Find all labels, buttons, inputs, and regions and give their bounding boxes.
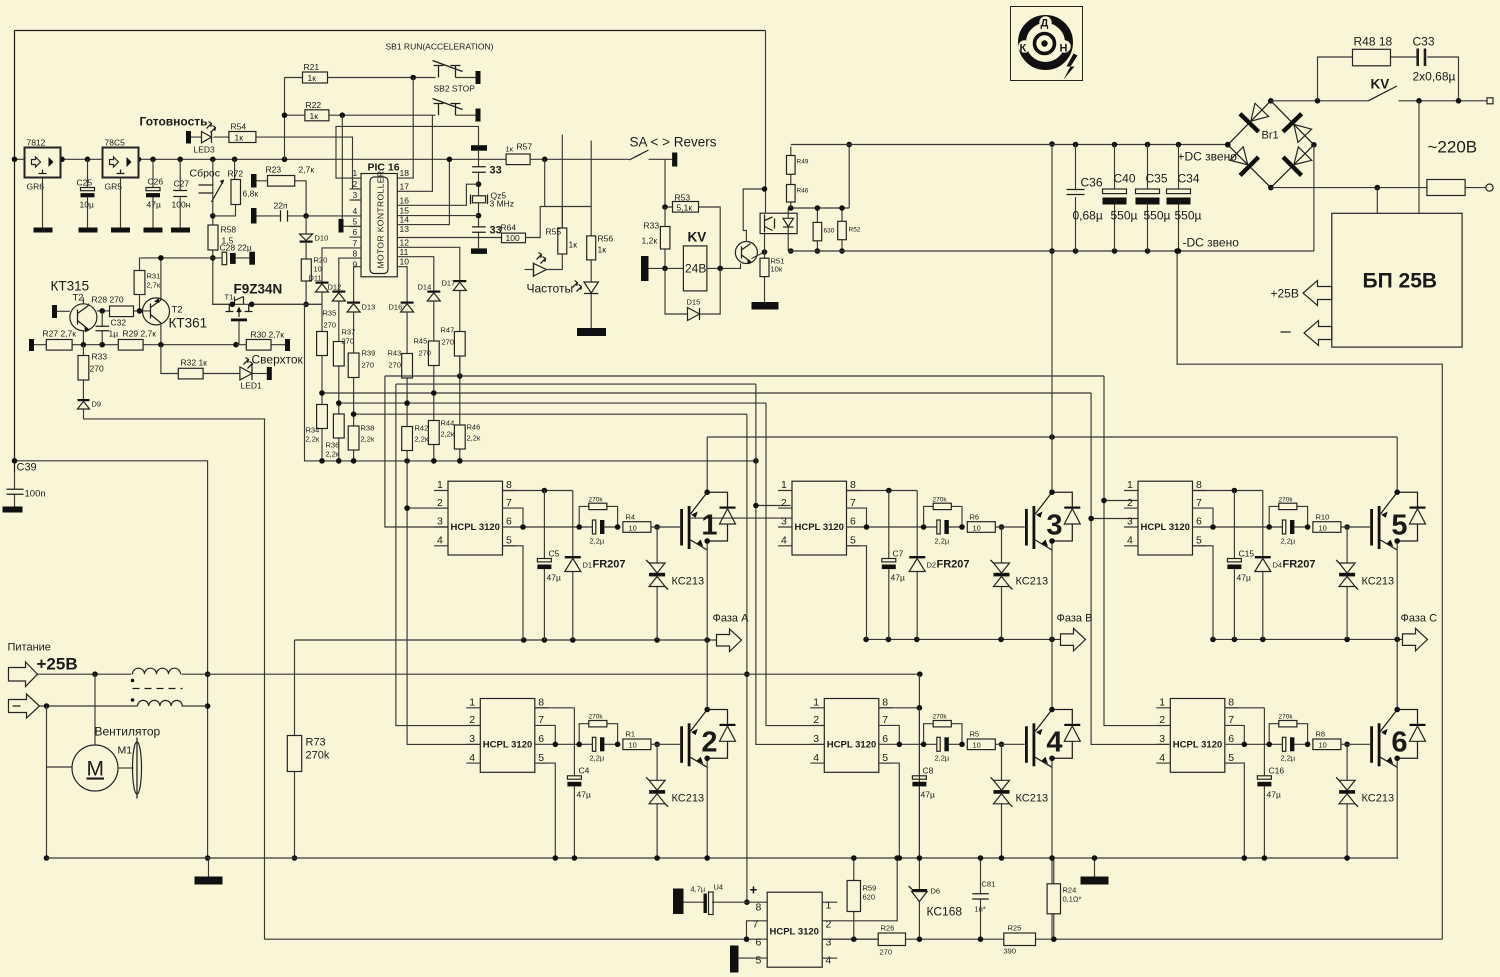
PSU box BP 25V [1332, 213, 1462, 347]
svg-text:R55: R55 [546, 227, 562, 237]
svg-text:R44: R44 [441, 419, 455, 428]
svg-text:10µ: 10µ [80, 200, 94, 210]
zener KC213 (U6) [1346, 744, 1348, 858]
wire: U2 pin6 output [535, 743, 579, 745]
svg-text:R73: R73 [306, 737, 326, 749]
wire: transistor collector loop to main vertical [743, 189, 764, 242]
svg-text:C16: C16 [1269, 766, 1285, 776]
svg-text:D10: D10 [315, 234, 329, 243]
svg-text:10: 10 [629, 741, 637, 750]
wire: U4 pin7-pin6 bridge [879, 725, 900, 744]
svg-text:550µ: 550µ [1111, 209, 1138, 223]
svg-text:C25: C25 [77, 178, 93, 188]
svg-text:1к: 1к [308, 73, 317, 83]
svg-text:FR207: FR207 [937, 559, 970, 571]
wire: R58 bottom node to R31/KT361 [140, 258, 213, 299]
svg-text:D13: D13 [362, 303, 376, 312]
svg-text:R46: R46 [797, 188, 809, 195]
LED frequency indicator 2 [573, 281, 582, 292]
resistor R43 270 [406, 312, 408, 461]
zener KC213 (U1) [656, 527, 658, 640]
svg-text:C35: C35 [1146, 172, 1168, 186]
svg-text:550µ: 550µ [1175, 209, 1202, 223]
svg-text:2,2к: 2,2к [306, 435, 320, 444]
feedback optocoupler [760, 213, 797, 233]
capacitor C26 47u [152, 159, 154, 227]
svg-text:КС213: КС213 [1362, 793, 1395, 805]
wire: descent x=765.5 to HCPL4 pin2 [766, 403, 825, 725]
wire: vertical joining R21/R22 to rail [284, 78, 286, 160]
ground symbol right of center [1094, 858, 1096, 877]
resistor 270k bypass (U6) [1269, 724, 1307, 745]
wire: R54 output down to PIC pin2 [256, 137, 361, 189]
svg-text:SB1 RUN(ACCELERATION): SB1 RUN(ACCELERATION) [386, 42, 494, 52]
svg-text:2,2µ: 2,2µ [1281, 754, 1296, 763]
svg-text:10к: 10к [771, 265, 783, 274]
bus line y=383.6 [396, 383, 756, 385]
svg-text:22п: 22п [274, 201, 288, 211]
logo letter N knockout [1058, 40, 1070, 52]
svg-text:C81: C81 [982, 880, 996, 889]
svg-text:MOTOR KONTROLLER: MOTOR KONTROLLER [376, 171, 386, 269]
svg-text:LED3: LED3 [194, 145, 216, 155]
resistor R49 (upper series) [790, 147, 792, 185]
svg-text:16: 16 [400, 195, 410, 205]
regulator GR6 7812 [25, 148, 61, 178]
svg-text:КС213: КС213 [1016, 793, 1049, 805]
wire: transistor emitter to R51 node [752, 252, 765, 259]
svg-text:КС168: КС168 [927, 905, 963, 919]
bus line y=402.6 [339, 402, 766, 404]
wire: y=460.3 line to x=207 vertical [15, 461, 208, 858]
svg-text:2,2к: 2,2к [326, 450, 340, 459]
svg-text:Питание: Питание [8, 642, 51, 654]
svg-text:10: 10 [973, 741, 981, 750]
svg-text:4,7µ: 4,7µ [691, 885, 706, 894]
phase C node line [1213, 638, 1403, 640]
svg-text:КТ315: КТ315 [51, 279, 90, 294]
svg-text:47µ: 47µ [147, 200, 161, 210]
wire: U6 pin5 to ground rail [1225, 763, 1245, 858]
capacitor C32 1u [101, 311, 103, 345]
svg-text:+DC звено: +DC звено [1178, 150, 1238, 164]
capacitor C34 550u [1178, 145, 1180, 252]
wire: descent x=395.4 to HCPL2 pin2 [396, 384, 480, 725]
svg-text:FR207: FR207 [593, 559, 626, 571]
capacitor 2.2u (U4) [924, 743, 962, 745]
svg-text:17: 17 [400, 181, 410, 191]
optocoupler U6 HCPL 3120 [1156, 697, 1239, 773]
wire: U3 pin8 supply line [847, 490, 918, 492]
svg-text:Фаза B: Фаза B [1057, 613, 1093, 625]
svg-text:R36: R36 [326, 441, 340, 450]
phase A node line y=639.5 [295, 639, 717, 641]
svg-text:D11: D11 [309, 274, 322, 283]
svg-text:18: 18 [400, 168, 410, 178]
svg-text:R56: R56 [598, 234, 614, 244]
svg-text:270: 270 [389, 361, 402, 370]
svg-text:270: 270 [342, 337, 355, 346]
capacitor C5 47u [543, 491, 545, 641]
svg-text:R52: R52 [849, 227, 861, 234]
svg-text:R38: R38 [361, 424, 375, 433]
resistor R1 10 [623, 739, 651, 750]
svg-text:U4: U4 [714, 883, 724, 892]
wire: opto LED top to divider node [788, 208, 849, 218]
diode D14 [427, 291, 440, 293]
node: rail junction dots left section [12, 157, 288, 163]
motor leads [47, 674, 96, 858]
svg-text:270k: 270k [589, 497, 604, 504]
wire: U6 pin8 supply line [1225, 707, 1265, 709]
svg-text:R6: R6 [970, 513, 980, 522]
wire: opto LED bottom to -DC rail [787, 227, 789, 251]
node: gate bus dots on bottom bus y=460.4 [319, 458, 759, 464]
svg-text:5: 5 [756, 955, 762, 967]
terminal bar at PIC pin5 [339, 219, 344, 233]
svg-text:R48 18: R48 18 [1354, 35, 1393, 49]
bus line y=375.5 [385, 375, 1104, 377]
svg-text:R64: R64 [501, 223, 517, 233]
svg-text:R42: R42 [415, 424, 429, 433]
svg-text:R45: R45 [414, 337, 428, 346]
svg-text:10: 10 [314, 265, 322, 274]
svg-text:R26: R26 [881, 924, 895, 933]
bridge diode top-left [1238, 101, 1271, 134]
transistor T2 KT361 [143, 298, 170, 325]
svg-text:10: 10 [973, 524, 981, 533]
resistor 270k bypass (U1) [579, 506, 617, 527]
svg-text:D1: D1 [583, 561, 593, 570]
svg-text:R22: R22 [306, 100, 322, 110]
mains terminal (circle) bottom [1486, 184, 1493, 191]
svg-text:3: 3 [826, 937, 832, 949]
U7 pin3 wire right [822, 938, 878, 940]
optocoupler U3 HCPL 3120 [778, 479, 861, 555]
ground below 78C5 [120, 178, 122, 228]
svg-text:М: М [87, 758, 105, 781]
svg-text:C15: C15 [1239, 549, 1255, 559]
wire: D9 to long return loop x=264 [84, 409, 265, 939]
svg-text:1µ: 1µ [109, 329, 119, 339]
svg-text:+: + [750, 883, 758, 898]
svg-text:КС213: КС213 [672, 793, 705, 805]
zener KC213 (U2) [656, 744, 658, 858]
svg-text:1к: 1к [569, 240, 578, 250]
wire: U2 pin5 to ground rail [535, 763, 556, 858]
filter choke winding 2 [40, 705, 208, 707]
optocoupler U5 HCPL 3120 [1124, 479, 1207, 555]
svg-text:T2: T2 [172, 305, 183, 316]
svg-text:1к: 1к [235, 133, 244, 143]
wire: rail from R54 area to R57 [361, 158, 506, 160]
pin5 terminal bar of U7 [730, 946, 739, 973]
mains terminal (square) top [1487, 98, 1493, 104]
svg-text:6,8к: 6,8к [243, 189, 259, 199]
svg-text:5: 5 [1391, 510, 1407, 542]
svg-text:R29 2,7к: R29 2,7к [123, 329, 157, 339]
svg-text:C34: C34 [1178, 172, 1200, 186]
svg-text:2,7к: 2,7к [147, 281, 161, 290]
svg-text:R33: R33 [644, 221, 660, 231]
svg-text:0,68µ: 0,68µ [1073, 209, 1103, 223]
fuse FU1 [1427, 180, 1465, 196]
svg-text:R20: R20 [314, 256, 328, 265]
svg-text:270: 270 [90, 364, 104, 374]
svg-text:R31: R31 [147, 272, 161, 281]
resistor R20 10 [305, 243, 307, 305]
wire: U5 pin7-pin6 bridge [1193, 508, 1214, 527]
diode D10 [305, 216, 307, 235]
bus line y=392.5 [322, 392, 1091, 394]
capacitor C4 47u [573, 708, 575, 858]
svg-text:270k: 270k [1279, 497, 1294, 504]
svg-text:LED1: LED1 [241, 381, 263, 391]
svg-text:2,2к: 2,2к [361, 435, 375, 444]
wire: U2 pin7-pin6 bridge [535, 725, 556, 744]
wire: divider feed from +DC line [848, 145, 850, 209]
svg-text:C33: C33 [1413, 35, 1435, 49]
svg-text:8: 8 [756, 902, 762, 914]
svg-text:D4: D4 [1273, 561, 1283, 570]
svg-text:11: 11 [400, 247, 409, 257]
LED1 overcurrent (Сверхток) [240, 367, 252, 380]
svg-text:C40: C40 [1114, 172, 1136, 186]
wire: U3 pin5 to phase B [847, 546, 867, 640]
svg-text:270k: 270k [306, 750, 330, 762]
wire: bridge minus corner down to -DC rail [1313, 145, 1315, 251]
resistor R37 270 [338, 301, 340, 461]
ground rail y=857.5 [47, 857, 1399, 859]
svg-text:7: 7 [753, 919, 759, 931]
svg-text:2,2µ: 2,2µ [935, 754, 950, 763]
svg-text:8: 8 [353, 249, 358, 259]
svg-text:550µ: 550µ [1144, 209, 1171, 223]
svg-text:1n*: 1n* [975, 905, 986, 914]
+DC collector bus y=436.5 [707, 436, 1397, 438]
resistor R24 0.1 [1053, 858, 1055, 939]
wire: PIC pin16 to crystal top node [397, 184, 478, 205]
bus line y=413.7 [354, 413, 747, 415]
svg-text:47µ: 47µ [921, 790, 935, 800]
svg-text:47µ: 47µ [577, 790, 591, 800]
logo lightning [1064, 54, 1078, 80]
svg-text:6: 6 [353, 227, 358, 237]
resistor R35 270 [321, 292, 323, 461]
capacitor 2.2u (U5) [1269, 526, 1307, 528]
svg-text:47µ: 47µ [891, 573, 905, 583]
ground bar below C39 [3, 507, 23, 513]
svg-text:GR6: GR6 [27, 182, 45, 192]
svg-text:F9Z34N: F9Z34N [234, 282, 283, 297]
resistor 270k bypass (U2) [579, 724, 617, 745]
wire: U1 pin7-pin6 bridge [503, 508, 524, 527]
svg-text:R59: R59 [863, 884, 877, 893]
wire: descent x=1090.6 from bus y=392.5 through HCPL5 pin3 to HCPL6 pin3 [1091, 393, 1168, 744]
resistor R46 2.2k [454, 425, 465, 449]
svg-text:SB2 STOP: SB2 STOP [434, 84, 476, 94]
capacitor 2.2u (U6) [1269, 743, 1307, 745]
capacitor C40 550u [1114, 145, 1116, 252]
resistor R45 270 [433, 301, 435, 461]
svg-text:R5: R5 [970, 730, 980, 739]
wire: PIC pin12 down to channel6 diode [397, 247, 460, 280]
resistor R64 100 [502, 233, 526, 243]
svg-text:620: 620 [863, 893, 876, 902]
wire: U3 pin7-pin6 bridge [847, 508, 867, 527]
svg-text:Фаза C: Фаза C [1401, 613, 1438, 625]
svg-text:2,2к: 2,2к [441, 430, 455, 439]
resistor R48 18 with C33 snubber loop [1318, 57, 1459, 101]
resistor R22 1k [305, 110, 329, 121]
svg-text:KV: KV [1371, 77, 1390, 92]
power input arrow minus [9, 694, 40, 718]
optocoupler U4 HCPL 3120 [810, 697, 893, 773]
+25V rail y=673.7 [38, 673, 920, 675]
svg-text:R57: R57 [517, 142, 533, 152]
svg-text:7812: 7812 [27, 138, 46, 148]
resistor R5 10 [967, 739, 995, 750]
svg-text:R24: R24 [1063, 886, 1077, 895]
svg-text:2,2к: 2,2к [467, 434, 481, 443]
svg-text:Д: Д [1041, 18, 1049, 30]
svg-text:+25В: +25В [37, 655, 78, 674]
resistor R57 [506, 154, 530, 165]
resistor R6 10 [967, 522, 995, 533]
wire: channel6 top tap to bus [459, 356, 461, 376]
logo letter K knockout [1018, 40, 1030, 52]
svg-text:Частоты: Частоты [527, 282, 574, 296]
svg-text:БП 25В: БП 25В [1363, 270, 1438, 293]
resistor R55 1k [558, 228, 567, 254]
svg-text:2,2µ: 2,2µ [590, 537, 605, 546]
power input arrow + [9, 662, 38, 687]
svg-text:0,1Ω*: 0,1Ω* [1063, 895, 1082, 904]
svg-text:10: 10 [1319, 524, 1327, 533]
optocoupler U7 HCPL 3120 (bottom, mirrored) [739, 902, 767, 958]
diode across relay [665, 268, 720, 314]
LED frequency indicator 1 [548, 254, 563, 270]
wire: U5 pin8 supply line [1193, 490, 1263, 492]
svg-text:Сброс: Сброс [190, 168, 221, 180]
wire: F9Z34N drain line y=303.8 [213, 303, 322, 305]
svg-text:D9: D9 [92, 400, 102, 409]
resistor R36 2.2k [333, 414, 344, 438]
U7 pin1 stub [822, 901, 837, 903]
svg-text:~220В: ~220В [1428, 138, 1478, 157]
fan blade symbol [118, 767, 134, 769]
svg-text:R33: R33 [92, 352, 108, 362]
transformer core dashed line [133, 688, 183, 690]
capacitor 33 (top) [478, 151, 480, 196]
svg-text:270: 270 [324, 321, 337, 330]
svg-text:100n: 100n [25, 489, 46, 500]
capacitor 22n with input terminal [251, 208, 257, 224]
relay driver transistor [735, 242, 757, 264]
main emitter line y=344.2 with R27 R29 R30 [29, 339, 34, 351]
svg-text:D2: D2 [927, 561, 937, 570]
svg-text:R28 270: R28 270 [92, 295, 124, 305]
resistor R21 1k [303, 72, 328, 83]
wire: U4 pin8 supply line [879, 707, 920, 709]
capacitor C25 10u [87, 159, 89, 227]
svg-text:R46: R46 [467, 423, 481, 432]
svg-text:Br1: Br1 [1262, 130, 1279, 142]
svg-text:1к: 1к [506, 145, 514, 154]
svg-text:R27 2,7к: R27 2,7к [43, 329, 77, 339]
bridge diode bottom-right [1282, 144, 1315, 177]
svg-text:3 MHz: 3 MHz [490, 199, 515, 209]
bridge diode top-right [1281, 112, 1314, 145]
capacitor 4.7u at U7 supply [673, 889, 684, 915]
diode D1 FR207 [572, 491, 574, 641]
svg-text:R39: R39 [362, 349, 376, 358]
svg-text:2: 2 [353, 179, 358, 189]
wire: long vertical from top frame to opto at x=765 [765, 31, 767, 213]
svg-text:К: К [1020, 43, 1027, 55]
resistor R32 1k [161, 345, 240, 374]
svg-text:C5: C5 [549, 549, 560, 559]
svg-text:КС213: КС213 [1016, 576, 1049, 588]
wire: descent x=746.4 from bus y=413.7 down to HCPL7 supply [746, 414, 748, 902]
svg-text:3: 3 [353, 190, 358, 200]
resistor R8 10 [1313, 739, 1341, 750]
svg-text:C8: C8 [923, 766, 934, 776]
svg-text:2: 2 [701, 727, 717, 759]
svg-text:D16: D16 [389, 303, 403, 312]
svg-text:GR5: GR5 [105, 182, 123, 192]
svg-text:R43: R43 [388, 349, 402, 358]
ground below 7812 [42, 178, 44, 228]
IGBT 4 [1025, 710, 1080, 768]
svg-text:R49: R49 [797, 159, 809, 166]
svg-text:КС213: КС213 [1362, 576, 1395, 588]
resistor R56 1k [587, 236, 596, 260]
svg-text:2,2µ: 2,2µ [1281, 537, 1296, 546]
crystal circuit: top terminal bar [471, 145, 487, 151]
svg-text:HCPL 3120: HCPL 3120 [770, 927, 819, 938]
wire: PIC pin14 to Vdd rail [397, 159, 449, 224]
svg-text:270: 270 [442, 338, 455, 347]
ground bar below R51 [752, 302, 779, 310]
wire: descent x=1103.5 from bus y=375.5 through HCPL5 pin2 to HCPL6 pin2 [1104, 376, 1169, 726]
svg-text:2,7к: 2,7к [299, 165, 315, 175]
wire: R21 line and SB1 feed [285, 77, 436, 79]
PIC left pin stubs 1-9 [350, 178, 362, 237]
svg-text:C4: C4 [579, 766, 590, 776]
svg-text:D17: D17 [442, 279, 456, 288]
wire: PIC pin15 to crystal bottom node [397, 215, 478, 217]
capacitor 2.2u (U2) [579, 743, 617, 745]
capacitor C35 550u [1147, 145, 1149, 252]
wire: descent x=755.4 from bus y=383.6 through HCPL3 pin2 to HCPL4 pin3 [756, 384, 825, 744]
wire: SA line tap down to R53/R33 node [664, 159, 666, 207]
wire: bridge AC top to KV switch line [1271, 100, 1369, 102]
resistor R10 10 [1313, 522, 1341, 533]
wire: SB1 vertical to PIC pin18 [397, 78, 413, 179]
U7 pin4 stub [822, 957, 837, 959]
wire: U4 pin6 output [879, 743, 924, 745]
long bottom line y=938.7 from x=264 to x=1441.8 [265, 938, 1443, 940]
svg-text:R30 2,7к: R30 2,7к [251, 330, 285, 340]
svg-text:2,2µ: 2,2µ [590, 754, 605, 763]
diode D12 [332, 291, 345, 293]
capacitor C33 2x0.68u [1418, 49, 1425, 67]
resistor R31 2.7k [134, 271, 145, 295]
resistor R4 10 [623, 522, 651, 533]
svg-text:Сверхток: Сверхток [252, 353, 304, 367]
svg-text:C27: C27 [174, 179, 190, 189]
